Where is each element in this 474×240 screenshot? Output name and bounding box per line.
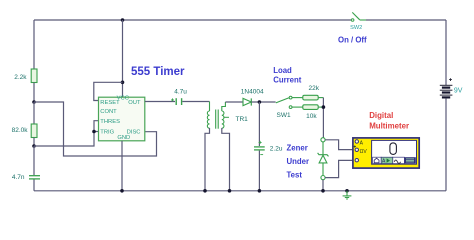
- svg-text:Digital: Digital: [369, 111, 393, 120]
- junction dot R3-R4: [322, 105, 326, 109]
- junction dot top rail VCC: [121, 18, 125, 22]
- wire RESET net: [94, 82, 123, 100]
- zener diode D2: [318, 153, 329, 163]
- op-amp U1 555 timer IC: [99, 96, 145, 141]
- wire VCC drop: [122, 20, 124, 97]
- wire SW1 to R3: [292, 97, 303, 99]
- wire C2 to TR1 primary: [182, 101, 209, 103]
- battery B1 9V: [440, 78, 463, 97]
- junction dot TRIG: [92, 130, 96, 134]
- wire multimeter V lead: [325, 140, 353, 150]
- svg-text:4.7n: 4.7n: [12, 174, 25, 181]
- svg-text:TR1: TR1: [236, 116, 249, 123]
- label Digital Multimeter: [369, 111, 409, 130]
- wire C3 to bottom rail: [258, 151, 260, 191]
- wire right rail upper: [445, 20, 447, 85]
- junction dot GND-rail: [120, 189, 124, 193]
- wire right rail lower: [445, 99, 447, 191]
- wire left rail between R2 and node B: [33, 138, 35, 147]
- node test point bottom: [321, 176, 325, 180]
- svg-text:SW2: SW2: [350, 25, 362, 31]
- wire left rail between node B and C1: [33, 146, 35, 175]
- diode D1 1N4004: [241, 88, 264, 105]
- junction dot C3-ground: [258, 189, 262, 193]
- wire test point to zener: [322, 142, 324, 155]
- svg-text:ΩV: ΩV: [360, 149, 368, 155]
- switch SW2: [350, 12, 366, 30]
- svg-text:9V: 9V: [454, 87, 463, 94]
- svg-text:Under: Under: [287, 157, 310, 166]
- wire GND lead of U1: [121, 141, 123, 191]
- resistor R2 82.0k: [12, 124, 37, 138]
- wire left rail upper: [33, 20, 35, 69]
- svg-text:SW1: SW1: [277, 112, 291, 119]
- resistor R3 22k: [303, 85, 320, 100]
- label Zener Under Test: [287, 144, 310, 180]
- svg-text:Current: Current: [273, 75, 302, 84]
- wire bottom test point to rail: [322, 180, 324, 191]
- switch SW1: [276, 96, 292, 119]
- junction dot zener-ground: [321, 189, 325, 193]
- wire SW1 lower contact to R4: [292, 106, 303, 108]
- wire DISC net: [34, 102, 157, 156]
- svg-text:TRIG: TRIG: [100, 130, 114, 136]
- label On / Off: [338, 35, 367, 44]
- wire R3 right stub: [318, 97, 323, 99]
- capacitor C1 4.7n: [12, 174, 40, 181]
- junction dot RESET tap: [121, 81, 125, 85]
- svg-text:10k: 10k: [306, 113, 317, 120]
- wire TR1 secondary bottom lead: [222, 128, 230, 191]
- svg-text:2.2k: 2.2k: [14, 74, 27, 81]
- svg-text:Load: Load: [273, 66, 292, 75]
- wire left rail below C1: [33, 180, 35, 191]
- ground: [343, 189, 352, 199]
- svg-text:2.2u: 2.2u: [270, 146, 283, 153]
- resistor R4 10k: [303, 105, 318, 120]
- svg-text:Zener: Zener: [287, 144, 308, 153]
- svg-text:OUT: OUT: [128, 100, 141, 106]
- wire node C to C3: [258, 102, 260, 146]
- node C junction dot: [258, 100, 262, 104]
- wire multimeter COM lead: [325, 160, 353, 177]
- svg-text:On / Off: On / Off: [338, 35, 367, 44]
- wire top rail left: [34, 19, 351, 21]
- junction dot primary-ground: [203, 189, 207, 193]
- wire D1 to SW1: [251, 101, 275, 103]
- wire top rail right: [366, 19, 446, 21]
- svg-text:Test: Test: [287, 171, 303, 180]
- wire TR1 secondary to D1: [225, 101, 243, 103]
- svg-text:Multimeter: Multimeter: [369, 122, 409, 131]
- transformer TR1: [207, 102, 248, 129]
- wire OUT to C2: [145, 101, 175, 103]
- multimeter M1: [353, 138, 419, 168]
- capacitor C2 4.7u: [171, 89, 187, 106]
- wire left rail between node A and R2: [33, 102, 35, 124]
- svg-text:555 Timer: 555 Timer: [131, 66, 185, 78]
- junction dot secondary-ground: [228, 189, 232, 193]
- node B junction dot: [32, 144, 36, 148]
- node A junction dot: [32, 100, 36, 104]
- wire R4 right stub: [318, 106, 323, 108]
- resistor R1 2.2k: [14, 69, 37, 83]
- wire zener to bottom test point: [322, 163, 324, 176]
- svg-text:GND: GND: [117, 135, 130, 141]
- svg-text:THRES: THRES: [100, 119, 120, 125]
- svg-text:CONT: CONT: [100, 109, 117, 115]
- node test point top: [321, 138, 325, 142]
- label 555 Timer: [131, 66, 185, 78]
- svg-text:4.7u: 4.7u: [174, 89, 187, 96]
- wire THRES TRIG net: [34, 121, 99, 146]
- svg-text:82.0k: 82.0k: [12, 127, 29, 134]
- wire load resistors to zener: [322, 98, 324, 138]
- svg-text:22k: 22k: [309, 85, 320, 92]
- capacitor C3 2.2u: [254, 141, 283, 155]
- wire TR1 primary bottom lead: [205, 128, 210, 191]
- label Load Current: [273, 66, 302, 84]
- svg-text:1N4004: 1N4004: [241, 88, 264, 95]
- wire bottom rail: [34, 190, 446, 192]
- svg-text:RESET: RESET: [100, 100, 120, 106]
- wire left rail between R1 and node A: [33, 83, 35, 103]
